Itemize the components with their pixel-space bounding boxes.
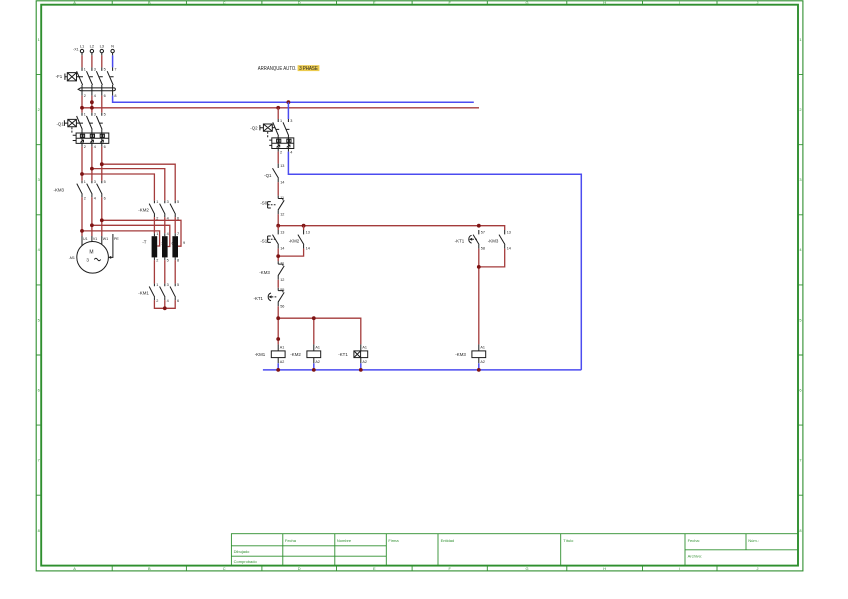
- svg-text:U1: U1: [83, 237, 88, 241]
- junction dot neutral KM1: [276, 368, 280, 372]
- svg-text:5: 5: [177, 200, 179, 204]
- svg-text:G: G: [525, 566, 528, 571]
- wire resistor 3 to KM1: [174, 260, 176, 283]
- svg-text:5: 5: [104, 180, 106, 184]
- svg-text:9: 9: [183, 241, 185, 245]
- wire KM3 to motor V1: [91, 197, 93, 236]
- svg-text:E: E: [373, 0, 376, 5]
- wire L3 Q1 to KM3: [101, 147, 103, 181]
- wire L1 F1 to bus: [81, 96, 83, 113]
- svg-text:A: A: [73, 0, 76, 5]
- svg-text:2: 2: [156, 216, 158, 220]
- svg-text:8: 8: [799, 528, 801, 533]
- svg-text:7: 7: [799, 458, 801, 463]
- svg-text:3: 3: [799, 177, 801, 182]
- tap wire V1 to resistor tap 6: [92, 225, 170, 246]
- svg-text:2: 2: [799, 107, 801, 112]
- svg-text:-KT1: -KT1: [253, 296, 263, 301]
- svg-text:1: 1: [84, 68, 86, 72]
- wire KM3 to motor U1: [81, 197, 83, 236]
- svg-text:-KM2: -KM2: [290, 352, 301, 357]
- svg-text:G: G: [525, 0, 528, 5]
- control rail to right branch: [278, 226, 505, 230]
- svg-text:I: I: [679, 0, 680, 5]
- wire L2 terminal to F1: [91, 55, 93, 67]
- svg-text:-M1: -M1: [69, 256, 75, 260]
- junction dot right rejoin: [477, 265, 481, 269]
- svg-text:6: 6: [177, 216, 179, 220]
- svg-text:L2: L2: [90, 44, 95, 49]
- svg-text:6: 6: [104, 94, 106, 98]
- svg-text:3: 3: [161, 241, 163, 245]
- svg-text:4: 4: [167, 216, 169, 220]
- svg-text:H: H: [603, 566, 606, 571]
- svg-text:A2: A2: [280, 360, 285, 364]
- svg-text:11: 11: [280, 196, 284, 200]
- junction dot W1 tap: [100, 218, 104, 222]
- auxiliary contact Q1 13-14: [264, 164, 284, 185]
- circuit breaker F1 (4-pole): [56, 67, 117, 98]
- svg-text:L1: L1: [80, 44, 85, 49]
- tap wire W1 to resistor tap 9: [102, 220, 181, 246]
- svg-text:H: H: [603, 0, 606, 5]
- svg-text:-KT1: -KT1: [338, 352, 348, 357]
- svg-text:C: C: [223, 566, 226, 571]
- svg-text:-KM3: -KM3: [259, 270, 270, 275]
- svg-text:13: 13: [507, 230, 511, 234]
- wire resistor 2 to KM1: [164, 260, 166, 283]
- svg-text:Fecha: Fecha: [285, 538, 297, 543]
- svg-text:5: 5: [104, 112, 106, 116]
- contactor coil KM2: [290, 344, 320, 363]
- contactor KM1 main contacts (3-pole): [138, 283, 179, 303]
- terminal strip -X1 with terminals L1 L2 L3 N: [73, 44, 114, 56]
- svg-text:B: B: [148, 0, 151, 5]
- svg-text:A2: A2: [480, 360, 485, 364]
- svg-text:-KM3: -KM3: [54, 187, 65, 192]
- svg-text:1: 1: [799, 37, 801, 42]
- svg-text:5: 5: [799, 317, 801, 322]
- svg-text:5: 5: [177, 283, 179, 287]
- svg-text:J: J: [757, 0, 759, 5]
- svg-text:14: 14: [306, 247, 310, 251]
- svg-text:-KM1: -KM1: [255, 352, 266, 357]
- wire KM2 aux branch drop: [303, 226, 305, 230]
- svg-text:5: 5: [104, 68, 106, 72]
- wire neutral bus to Q2 pole 3: [287, 102, 289, 119]
- svg-text:A1: A1: [480, 345, 485, 349]
- svg-text:7: 7: [114, 68, 116, 72]
- neutral wire elbow from F1: [113, 96, 474, 103]
- svg-text:Entidad: Entidad: [441, 538, 455, 543]
- svg-text:Título: Título: [563, 538, 574, 543]
- svg-text:L3: L3: [100, 44, 105, 49]
- motor M1 (3-phase): [69, 234, 120, 273]
- contactor KM2 main contacts (3-pole): [138, 200, 179, 220]
- svg-text:14: 14: [507, 247, 511, 251]
- wire -KT1 coil to neutral rail: [360, 363, 362, 370]
- svg-text:Núm.:: Núm.:: [748, 538, 759, 543]
- feed wire to KM2 pole 3: [92, 169, 165, 201]
- svg-text:4: 4: [290, 150, 292, 154]
- svg-text:13: 13: [306, 230, 310, 234]
- title block: [231, 534, 798, 566]
- svg-text:1: 1: [84, 112, 86, 116]
- svg-text:4: 4: [167, 299, 169, 303]
- svg-text:5: 5: [38, 317, 40, 322]
- junction dot bus L1: [80, 106, 84, 110]
- svg-text:1: 1: [156, 232, 158, 236]
- timed contact KT1 55-56: [253, 288, 284, 309]
- junction dot feed L3: [100, 162, 104, 166]
- svg-text:ARRANQUE AUTO.: ARRANQUE AUTO.: [258, 66, 297, 72]
- svg-text:3: 3: [290, 119, 292, 123]
- contactor coil KM3: [455, 344, 485, 363]
- svg-text:4: 4: [94, 145, 96, 149]
- svg-text:3: 3: [167, 283, 169, 287]
- wire resistor 1 to KM1: [153, 260, 155, 283]
- svg-text:13: 13: [280, 230, 284, 234]
- start pushbutton S1 (NO): [260, 230, 284, 251]
- svg-text:-KM2: -KM2: [138, 207, 149, 212]
- svg-text:2: 2: [84, 94, 86, 98]
- svg-text:I: I: [679, 566, 680, 571]
- wire right contacts rejoin: [479, 249, 505, 345]
- svg-text:Archivo:: Archivo:: [688, 554, 702, 559]
- junction dot coil rail KM1: [276, 316, 280, 320]
- svg-text:-Q1: -Q1: [264, 173, 272, 178]
- svg-text:-KM3: -KM3: [488, 238, 499, 243]
- svg-text:6: 6: [799, 387, 801, 392]
- svg-text:57: 57: [481, 230, 485, 234]
- svg-text:2: 2: [84, 145, 86, 149]
- svg-text:3: 3: [94, 112, 96, 116]
- schematic title annotation: [258, 65, 320, 72]
- svg-text:1: 1: [156, 283, 158, 287]
- svg-text:1: 1: [156, 200, 158, 204]
- svg-text:4: 4: [94, 94, 96, 98]
- wire KM3 to motor W1: [101, 197, 103, 236]
- wire L2 Q1 to KM3: [91, 147, 93, 181]
- junction dot neutral bus tap: [287, 100, 291, 104]
- svg-text:14: 14: [280, 247, 284, 251]
- junction dot red bus tap Q2: [276, 106, 280, 110]
- svg-text:A1: A1: [362, 345, 367, 349]
- svg-text:3: 3: [86, 258, 89, 263]
- junction dot S0 bottom: [276, 224, 280, 228]
- svg-text:8: 8: [177, 259, 179, 263]
- wire red bus to Q2 pole 1: [277, 108, 279, 119]
- junction dot bus L2: [90, 106, 94, 110]
- svg-text:A: A: [73, 566, 76, 571]
- neutral loop from Q2 to coil rail: [288, 152, 581, 370]
- svg-text:2: 2: [156, 259, 158, 263]
- svg-text:-KM1: -KM1: [138, 290, 149, 295]
- svg-text:M: M: [89, 250, 93, 256]
- svg-text:56: 56: [280, 304, 284, 308]
- svg-text:J: J: [757, 566, 759, 571]
- svg-text:5: 5: [167, 259, 169, 263]
- svg-text:6: 6: [38, 387, 40, 392]
- junction dot V1 tap: [90, 223, 94, 227]
- wire junction to S1: [277, 226, 279, 230]
- motor circuit breaker Q1 (3-pole with thermal overload): [56, 112, 108, 148]
- timed contact KT1 57-58 (delayed close): [455, 230, 485, 251]
- wire L1 terminal to F1: [81, 55, 83, 67]
- wire -KM2 coil to neutral rail: [313, 363, 315, 370]
- svg-text:4: 4: [167, 232, 169, 236]
- feed wire to KM2 pole 5: [102, 164, 175, 201]
- svg-text:12: 12: [280, 212, 284, 216]
- svg-text:8: 8: [38, 528, 40, 533]
- svg-text:B: B: [148, 566, 151, 571]
- svg-text:7: 7: [177, 232, 179, 236]
- wire S1/KM2 aux rejoin: [278, 249, 303, 262]
- junction dot neutral KT1: [359, 368, 363, 372]
- svg-text:2: 2: [38, 107, 40, 112]
- wire N terminal to F1: [112, 55, 114, 67]
- starting resistor bank -T (tapped resistors): [142, 232, 185, 262]
- wire L3 terminal to F1: [101, 55, 103, 67]
- junction dot neutral KM3: [477, 368, 481, 372]
- svg-text:A1: A1: [280, 345, 285, 349]
- wire L2 F1 to bus: [91, 96, 93, 113]
- svg-text:-Q1: -Q1: [56, 121, 64, 126]
- timer relay coil KT1: [338, 344, 367, 363]
- svg-text:A2: A2: [315, 360, 320, 364]
- svg-text:D: D: [298, 566, 301, 571]
- junction dot right branch: [477, 224, 481, 228]
- svg-text:6: 6: [172, 242, 174, 246]
- svg-text:3: 3: [94, 180, 96, 184]
- red phase bus to control circuit: [82, 107, 479, 109]
- wire KM2 to resistor 2: [164, 217, 166, 233]
- stop pushbutton S0 (NC): [260, 196, 284, 217]
- svg-text:1: 1: [84, 180, 86, 184]
- junction dot U1 tap: [80, 229, 84, 233]
- contactor coil KM1: [255, 344, 285, 363]
- svg-text:3: 3: [167, 200, 169, 204]
- svg-text:-Q2: -Q2: [250, 126, 258, 131]
- svg-text:58: 58: [481, 247, 485, 251]
- svg-text:-S0: -S0: [260, 201, 267, 206]
- wire KM2 to resistor 1: [153, 217, 155, 233]
- svg-text:A1: A1: [315, 345, 320, 349]
- svg-text:3: 3: [38, 177, 40, 182]
- motor circuit breaker Q2 (2-pole with thermal overload): [250, 119, 294, 154]
- svg-text:6: 6: [177, 299, 179, 303]
- wire -KM1 coil to neutral rail: [277, 363, 279, 370]
- svg-text:Nombre: Nombre: [337, 538, 352, 543]
- wire -KM3 coil to neutral rail: [478, 363, 480, 370]
- svg-text:11: 11: [280, 262, 284, 266]
- svg-text:2: 2: [156, 299, 158, 303]
- wire Q1 aux to S0: [277, 182, 279, 195]
- svg-text:8: 8: [114, 94, 116, 98]
- junction dot L2 upper: [90, 100, 94, 104]
- auxiliary contact KM3 11-12: [259, 261, 284, 282]
- svg-text:Dibujado: Dibujado: [234, 549, 251, 554]
- junction dot feed L2: [90, 167, 94, 171]
- wire L1 Q1 to KM3: [81, 147, 83, 181]
- svg-text:-X1: -X1: [73, 48, 79, 52]
- wire KT1 contact to coil rail: [277, 306, 279, 318]
- wire S0 to junction: [277, 214, 279, 226]
- svg-text:7: 7: [38, 458, 40, 463]
- feed wire to KM2 pole 1: [82, 174, 154, 201]
- junction dot feed L1: [80, 172, 84, 176]
- svg-text:1: 1: [38, 37, 40, 42]
- wire KM2 to resistor 3: [174, 217, 176, 233]
- auxiliary contact KM3 13-14 (latch right): [488, 230, 511, 251]
- junction dot shorting bar: [163, 306, 167, 310]
- auxiliary contact KM2 13-14 (latch): [289, 230, 310, 251]
- svg-text:Firma: Firma: [388, 538, 399, 543]
- contactor KM3 main contacts (3-pole): [54, 180, 106, 200]
- svg-text:55: 55: [280, 288, 284, 292]
- svg-text:14: 14: [280, 180, 284, 184]
- svg-text:E: E: [373, 566, 376, 571]
- svg-text:6: 6: [104, 196, 106, 200]
- svg-text:2: 2: [84, 196, 86, 200]
- wire L3 F1 to bus: [101, 96, 103, 113]
- svg-text:-F1: -F1: [56, 74, 63, 79]
- wire KM3 aux to KT1 contact: [277, 280, 279, 288]
- svg-text:3: 3: [94, 68, 96, 72]
- junction dot KM1 branch: [276, 337, 280, 341]
- junction dot KM2 aux branch: [302, 224, 306, 228]
- svg-text:2: 2: [280, 150, 282, 154]
- shorting bar below KM1: [154, 300, 175, 308]
- svg-text:-T: -T: [142, 240, 146, 245]
- svg-text:-KT1: -KT1: [455, 238, 465, 243]
- svg-text:V1: V1: [93, 237, 97, 241]
- svg-text:C: C: [223, 0, 226, 5]
- svg-text:Fecha:: Fecha:: [688, 538, 700, 543]
- svg-text:-KM3: -KM3: [455, 352, 466, 357]
- svg-text:A2: A2: [362, 360, 367, 364]
- junction dot coil rail KM2: [312, 316, 316, 320]
- svg-text:D: D: [298, 0, 301, 5]
- svg-text:13: 13: [280, 164, 284, 168]
- svg-text:3 PHASE: 3 PHASE: [299, 66, 318, 72]
- svg-text:-KM2: -KM2: [289, 238, 300, 243]
- svg-text:6: 6: [104, 145, 106, 149]
- svg-text:W1: W1: [103, 237, 108, 241]
- neutral bottom rail: [263, 369, 581, 371]
- coil feed rail: [278, 318, 361, 344]
- svg-text:N: N: [111, 44, 114, 49]
- junction dot S1 bottom: [276, 254, 280, 258]
- svg-text:Comprobado: Comprobado: [234, 559, 258, 564]
- svg-text:12: 12: [280, 278, 284, 282]
- junction dot neutral KM2: [312, 368, 316, 372]
- svg-text:-S1: -S1: [260, 238, 267, 243]
- wire Q2 to Q1 aux contact: [277, 152, 279, 164]
- svg-text:4: 4: [94, 196, 96, 200]
- svg-text:1: 1: [280, 119, 282, 123]
- svg-text:PE: PE: [114, 237, 119, 241]
- tap wire U1 to resistor tap 3: [82, 231, 160, 246]
